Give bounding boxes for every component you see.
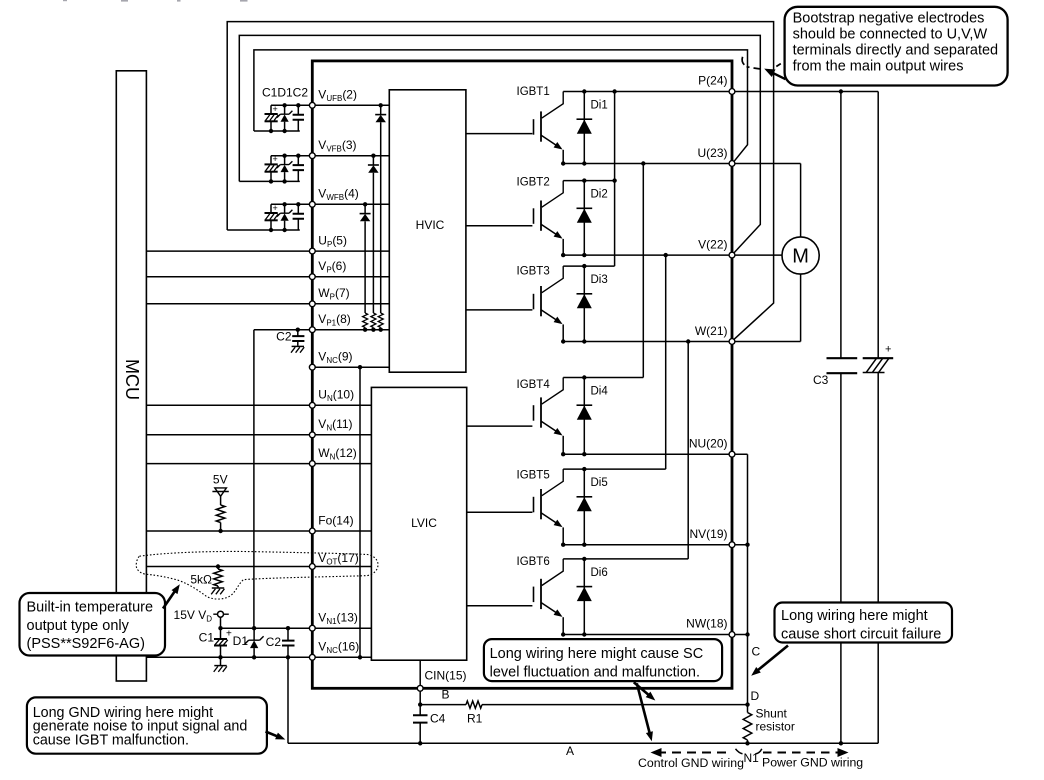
- svg-text:V(22): V(22): [698, 238, 727, 252]
- junction dots bootstrap 3: [269, 202, 301, 232]
- caption fragment (cropped text descenders at top edge): [63, 0, 248, 2]
- svg-text:B: B: [442, 688, 450, 702]
- wire VNC9 row: [312, 366, 389, 368]
- arrow from short-circuit callout: [751, 646, 788, 676]
- wire emitter rail IGBT6: [563, 634, 747, 636]
- svg-text:M: M: [792, 246, 809, 268]
- wire emitter rail IGBT2: [563, 254, 782, 256]
- freewheel diode Di6: [577, 559, 608, 635]
- wire collector rail IGBT1: [563, 91, 878, 93]
- svg-text:+: +: [273, 104, 278, 114]
- svg-text:UN(10): UN(10): [318, 388, 354, 404]
- wire power GND (A) bottom: [288, 742, 878, 744]
- svg-text:Control GND wiring: Control GND wiring: [638, 756, 744, 770]
- transistor IGBT2: [517, 177, 564, 256]
- svg-text:terminals directly and separat: terminals directly and separated: [793, 43, 999, 59]
- wire emitter rail IGBT5: [563, 544, 747, 546]
- bootstrap block 3: bottom rail wire: [227, 229, 300, 231]
- wire NU/NV/NW to shunt (C-D): [745, 454, 749, 707]
- svg-text:should be connected to U,V,W: should be connected to U,V,W: [793, 27, 988, 43]
- bootstrap diode Di (internal, col 2): [368, 156, 379, 313]
- arrows from SC callout: [634, 682, 656, 741]
- svg-text:Power GND wiring: Power GND wiring: [762, 755, 863, 769]
- bootstrap limiting resistor (col 3): [363, 313, 368, 330]
- callout: long GND wiring note: [27, 697, 267, 753]
- svg-text:Di4: Di4: [591, 386, 609, 398]
- junction dots IGBT2 rails: [561, 178, 587, 257]
- pin VN1(13): [309, 611, 357, 632]
- wire collector rail IGBT5: [563, 468, 666, 470]
- capacitor C2 (15V filter): [266, 626, 295, 660]
- capacitor C1 (15V filter, electrolytic): [199, 628, 232, 659]
- svg-text:HVIC: HVIC: [416, 218, 445, 232]
- capacitor C1 (bootstrap 2, electrolytic): [265, 154, 279, 181]
- transistor IGBT3: [517, 266, 564, 342]
- resistor 5V pull-up: [216, 496, 225, 533]
- svg-text:IGBT1: IGBT1: [517, 86, 550, 98]
- op-amp/driver HVIC block: [389, 90, 466, 372]
- svg-text:+: +: [273, 154, 278, 164]
- pin P(24): [698, 74, 735, 95]
- wire emitter rail IGBT1: [563, 163, 800, 165]
- freewheel diode Di5: [577, 469, 608, 545]
- MCU block: [116, 71, 146, 681]
- node dots col 3: [363, 202, 367, 332]
- capacitor C1 (bootstrap 3, electrolytic): [265, 203, 279, 230]
- pin W(21): [695, 324, 735, 344]
- bootstrap block 2: bottom rail wire: [239, 180, 299, 182]
- wire VNC(9)-VNC(16) link: [358, 365, 362, 660]
- svg-text:+: +: [885, 344, 891, 356]
- capacitor C2 (bootstrap 1): [293, 105, 304, 131]
- svg-text:resistor: resistor: [756, 720, 795, 734]
- capacitor DC-link electrolytic: [863, 344, 894, 373]
- wire collector rail IGBT6: [563, 558, 688, 560]
- pin VNC(9): [309, 350, 352, 371]
- svg-text:C4: C4: [430, 712, 446, 726]
- transistor IGBT1: [517, 86, 564, 164]
- wire B (CIN filter): [420, 704, 747, 706]
- svg-text:NU(20): NU(20): [689, 437, 728, 451]
- wire collector rail IGBT2: [563, 180, 614, 182]
- wire UN row: [146, 404, 371, 406]
- wire W drop to IGBT6 collector: [686, 339, 690, 559]
- pin NU(20): [689, 437, 735, 458]
- svg-text:VN1(13): VN1(13): [318, 611, 358, 627]
- temperature-output highlight ellipse (dotted): [136, 551, 378, 599]
- pin NV(19): [689, 527, 734, 548]
- svg-text:+: +: [226, 629, 232, 640]
- motor M: [782, 237, 819, 274]
- wire bootstrap return W (to W(21)): [227, 22, 773, 340]
- svg-text:NV(19): NV(19): [689, 527, 727, 541]
- callout: built-in temperature note: [20, 593, 166, 656]
- junction dots bootstrap 1: [269, 103, 301, 133]
- pin VNC(16): [309, 640, 359, 661]
- transistor IGBT4: [517, 378, 564, 455]
- wire collector rail IGBT4: [563, 377, 643, 379]
- pin VOT(17): [309, 551, 358, 569]
- bootstrap limiting resistor (col 1): [378, 313, 383, 330]
- pin WN(12): [309, 446, 356, 467]
- capacitor C3: [813, 358, 857, 387]
- wire CIN pin to C4: [418, 688, 422, 715]
- wire CIN from LVIC: [419, 660, 421, 688]
- capacitor C1 (bootstrap 1, electrolytic): [265, 104, 279, 131]
- wire Fo row: [146, 530, 371, 532]
- junction dots IGBT4 rails: [561, 375, 587, 456]
- svg-text:5kΩ: 5kΩ: [190, 573, 212, 587]
- svg-text:D1: D1: [233, 634, 249, 648]
- wire WP row: [146, 303, 389, 305]
- wire UP row: [146, 250, 389, 252]
- arrow from built-in temperature callout: [163, 584, 180, 608]
- svg-text:R1: R1: [467, 712, 483, 726]
- svg-text:MCU: MCU: [122, 359, 142, 400]
- svg-text:VNC(16): VNC(16): [318, 640, 359, 656]
- freewheel diode Di1: [577, 92, 608, 164]
- N1 tick marks: [736, 749, 762, 754]
- svg-text:Built-in temperature: Built-in temperature: [27, 600, 154, 616]
- wire VUFB row: [271, 104, 389, 106]
- power GND wiring dashed arrow: [762, 748, 863, 769]
- svg-text:P(24): P(24): [698, 74, 727, 88]
- pin VN(11): [309, 417, 352, 438]
- wire W to motor: [800, 274, 802, 341]
- svg-text:Di1: Di1: [591, 100, 608, 112]
- wire collector rail IGBT3: [563, 265, 614, 267]
- IPM module outline: [312, 61, 732, 688]
- junction dots IGBT5 rails: [561, 467, 587, 547]
- wire U to motor: [800, 164, 802, 237]
- pin NW(18): [686, 617, 735, 638]
- capacitor C2 (VP1 decoupling): [276, 328, 304, 346]
- wire VP1 riser to 15V rail: [253, 330, 255, 629]
- svg-text:Bootstrap negative electrodes: Bootstrap negative electrodes: [793, 10, 985, 26]
- zener diode D1 (bootstrap 3): [277, 204, 293, 230]
- wire control GND return (A, left leg): [287, 657, 289, 743]
- svg-text:VN(11): VN(11): [318, 417, 352, 433]
- capacitor C2 (bootstrap 2): [293, 156, 304, 182]
- bootstrap diode Di (internal, col 1): [375, 105, 386, 313]
- junction dots IGBT1 rails: [561, 89, 587, 165]
- svg-text:IGBT2: IGBT2: [517, 177, 550, 189]
- ground (5kOhm): [211, 586, 224, 594]
- junction dots IGBT6 rails: [561, 557, 587, 637]
- node dots col 2: [371, 154, 375, 332]
- svg-text:D: D: [751, 689, 760, 703]
- ground (VP1 C2): [291, 346, 304, 352]
- svg-text:C2: C2: [276, 330, 292, 344]
- wire VWFB row: [271, 203, 389, 205]
- freewheel diode Di4: [577, 378, 609, 455]
- svg-text:+: +: [273, 203, 278, 213]
- control GND wiring dashed arrow: [638, 748, 744, 770]
- pin V(22): [698, 238, 735, 259]
- wire VN row: [146, 434, 371, 436]
- svg-text:Long wiring here might: Long wiring here might: [781, 608, 928, 624]
- svg-text:(PSS**S92F6-AG): (PSS**S92F6-AG): [27, 636, 145, 652]
- node dots col 1: [379, 103, 383, 332]
- dashed arrow from bootstrap callout: [742, 57, 785, 79]
- svg-text:C1: C1: [199, 631, 215, 645]
- svg-text:C: C: [752, 645, 761, 659]
- svg-text:Di2: Di2: [591, 189, 608, 201]
- transistor IGBT6: [517, 556, 564, 635]
- svg-text:UP(5): UP(5): [318, 234, 347, 250]
- svg-text:Di6: Di6: [591, 567, 608, 579]
- 15V VD supply terminal: [174, 608, 229, 630]
- callout: bootstrap negative electrodes note: [785, 7, 1008, 86]
- transistor IGBT5: [517, 469, 564, 545]
- junction dots bootstrap 2: [269, 154, 301, 184]
- wire VN1 row: [221, 627, 372, 629]
- wire gate IGBT2: [466, 225, 533, 227]
- pin U(23): [697, 146, 734, 166]
- capacitor C4: [413, 712, 446, 746]
- svg-text:IGBT4: IGBT4: [517, 379, 551, 391]
- svg-text:Long wiring here might cause S: Long wiring here might cause SC: [490, 646, 704, 662]
- svg-text:cause short circuit failure: cause short circuit failure: [781, 626, 941, 642]
- ground (C1 15V): [214, 657, 227, 672]
- svg-text:VOT(17): VOT(17): [318, 551, 358, 567]
- driver LVIC block: [371, 387, 466, 660]
- callout: SC level fluctuation note: [484, 639, 722, 681]
- zener diode D1 (bootstrap 1): [277, 105, 293, 131]
- svg-text:U(23): U(23): [697, 146, 727, 160]
- arrow from long GND callout: [266, 732, 286, 740]
- svg-text:CIN(15): CIN(15): [425, 669, 467, 683]
- freewheel diode Di3: [577, 266, 608, 341]
- svg-text:Shunt: Shunt: [756, 707, 788, 721]
- pin UN(10): [309, 388, 354, 409]
- svg-text:cause IGBT malfunction.: cause IGBT malfunction.: [33, 732, 189, 748]
- wire V drop to IGBT5 collector: [664, 253, 668, 469]
- svg-text:WN(12): WN(12): [318, 446, 356, 462]
- wire U drop to IGBT4 collector: [641, 161, 645, 377]
- wire emitter rail IGBT4: [563, 453, 747, 455]
- pin Fo(14): [309, 514, 353, 534]
- freewheel diode Di2: [577, 181, 608, 256]
- wire gate IGBT5: [467, 511, 533, 513]
- svg-text:LVIC: LVIC: [411, 516, 437, 530]
- bootstrap limiting resistor (col 2): [371, 313, 376, 330]
- callout: short circuit failure note: [775, 603, 953, 643]
- junction dots IGBT3 rails: [561, 264, 587, 344]
- wire gate IGBT3: [466, 309, 533, 311]
- bootstrap block 1: bottom rail wire: [254, 130, 300, 132]
- pin WP(7): [309, 286, 349, 307]
- resistor R1: [466, 701, 483, 726]
- zener diode D1 (15V clamp): [233, 626, 264, 660]
- wire VOT row: [146, 566, 371, 568]
- svg-text:Fo(14): Fo(14): [318, 514, 353, 528]
- shunt resistor: [743, 705, 795, 746]
- wire P bus connector (collector tie): [612, 89, 616, 266]
- pin VUFB(2): [309, 88, 357, 109]
- capacitor C3 branch wire: [839, 89, 843, 745]
- resistor 5kOhm: [190, 564, 222, 586]
- wire gate IGBT1: [466, 133, 533, 135]
- svg-text:Di5: Di5: [591, 477, 608, 489]
- wire VNC16 row: [146, 656, 371, 658]
- svg-text:C1D1C2: C1D1C2: [262, 85, 308, 99]
- capacitor C2 (bootstrap 3): [293, 204, 304, 230]
- svg-text:VP(6): VP(6): [318, 259, 346, 275]
- wire main DC bus vertical: [877, 92, 879, 744]
- wire emitter rail IGBT3: [563, 341, 800, 343]
- wire gate IGBT4: [467, 425, 533, 427]
- pin CIN(15): [417, 669, 466, 692]
- pin VVFB(3): [309, 138, 356, 159]
- svg-text:output type only: output type only: [27, 618, 130, 634]
- wire VP1 row: [254, 329, 389, 331]
- svg-text:A: A: [566, 744, 574, 758]
- zener diode D1 (bootstrap 2): [277, 156, 293, 182]
- svg-text:IGBT6: IGBT6: [517, 556, 550, 568]
- pin VP1(8): [309, 312, 350, 333]
- svg-text:Di3: Di3: [591, 274, 608, 286]
- svg-text:C3: C3: [813, 373, 829, 387]
- wire bootstrap return V (to V(22)): [239, 35, 760, 252]
- wire bootstrap return U (to U(23)): [254, 50, 748, 161]
- svg-text:W(21): W(21): [695, 324, 728, 338]
- svg-text:NW(18): NW(18): [686, 617, 727, 631]
- svg-text:C2: C2: [266, 635, 282, 649]
- 5V supply symbol: [212, 473, 228, 497]
- pin VP(6): [309, 259, 346, 280]
- pin UP(5): [309, 234, 347, 255]
- svg-text:level fluctuation and malfunct: level fluctuation and malfunction.: [490, 664, 700, 680]
- wire VVFB row: [271, 155, 389, 157]
- svg-text:from the main output wires: from the main output wires: [793, 59, 964, 75]
- wire WN row: [146, 463, 371, 465]
- svg-text:IGBT3: IGBT3: [517, 266, 550, 278]
- wire VP row: [146, 276, 389, 278]
- pin VWFB(4): [309, 187, 358, 208]
- svg-text:IGBT5: IGBT5: [517, 470, 550, 482]
- bootstrap diode Di (internal, col 3): [360, 204, 371, 313]
- wire gate IGBT6: [467, 605, 533, 607]
- svg-text:5V: 5V: [213, 473, 228, 487]
